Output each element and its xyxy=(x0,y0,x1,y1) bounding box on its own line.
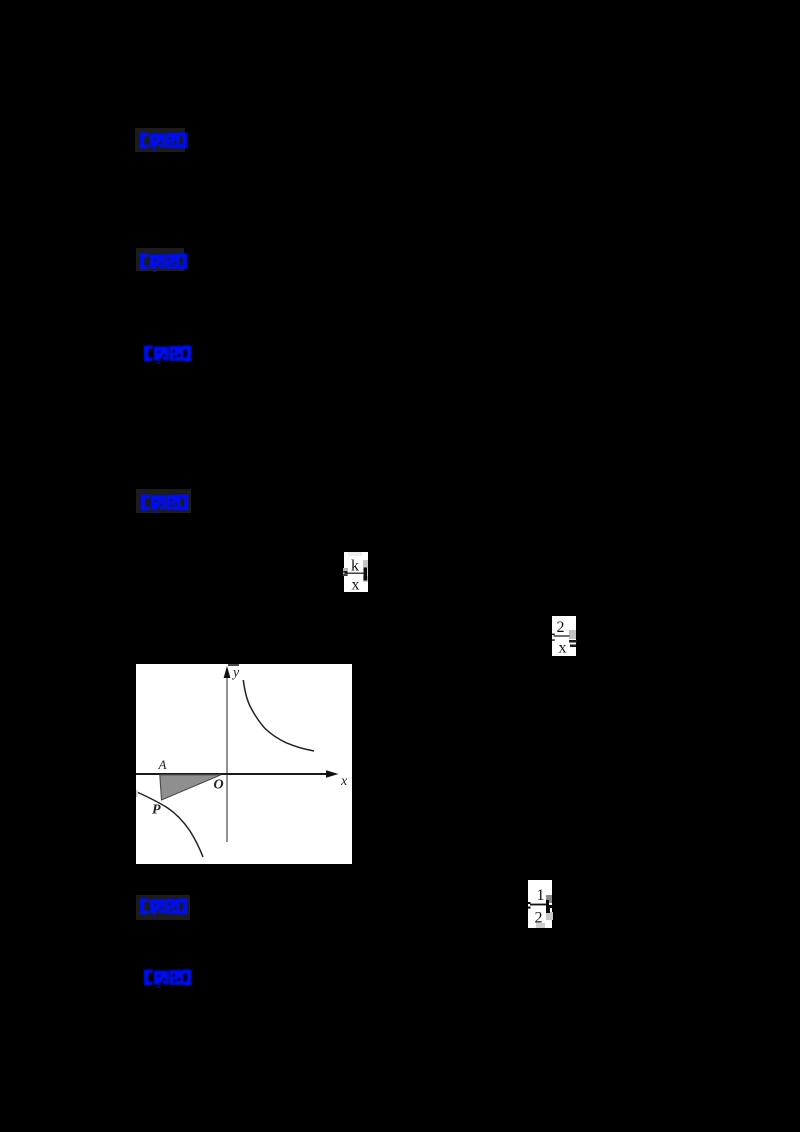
left edge chip xyxy=(136,790,138,797)
svg-text:O: O xyxy=(214,778,224,793)
svg-text:x: x xyxy=(352,577,360,594)
x axis xyxy=(136,773,332,775)
svg-text:2: 2 xyxy=(557,619,565,636)
svg-text:2: 2 xyxy=(535,910,543,927)
quadrant III curve xyxy=(138,793,203,858)
svg-text:k: k xyxy=(351,558,359,575)
quadrant I curve xyxy=(243,680,314,751)
blue label 4 xyxy=(140,493,192,513)
svg-text:x: x xyxy=(340,774,348,789)
svg-text:x: x xyxy=(559,640,567,657)
blue label 1 xyxy=(139,131,191,151)
blue label 6 xyxy=(143,968,195,988)
gray halo box label2 xyxy=(136,248,184,271)
svg-text:A: A xyxy=(158,757,167,772)
gray halo box label1 xyxy=(135,128,185,152)
figure: graph of inverse proportion function xyxy=(136,664,352,864)
formula 2/x xyxy=(548,614,588,660)
svg-text:y: y xyxy=(231,666,240,681)
formula k/x xyxy=(336,550,376,596)
gray halo box label5 xyxy=(136,895,190,920)
svg-text:1: 1 xyxy=(537,887,545,904)
svg-text:P: P xyxy=(152,803,161,818)
formula 1/2 xyxy=(524,878,566,932)
blue label definitions (shared SVG symbol) xyxy=(0,0,1,1)
top tick xyxy=(228,664,239,666)
blue label 2 xyxy=(139,252,191,272)
blue label 5 xyxy=(139,897,191,917)
shaded triangle APO xyxy=(160,775,221,800)
gray halo box label4 xyxy=(136,489,191,513)
y axis xyxy=(226,672,228,842)
blue label 3 xyxy=(143,344,195,364)
